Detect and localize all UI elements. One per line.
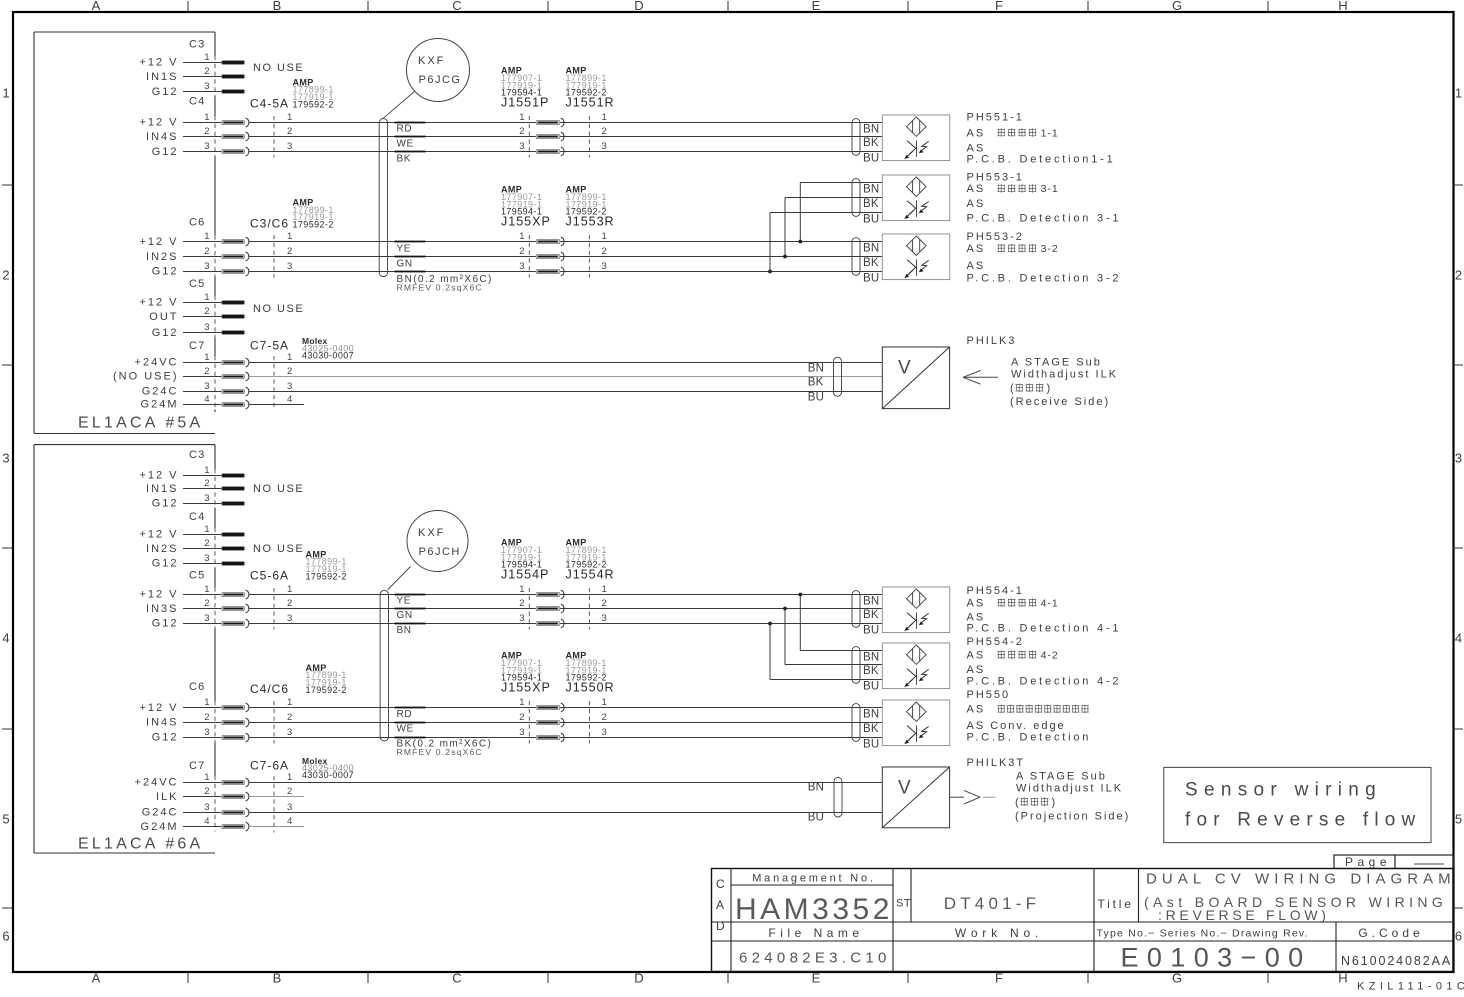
svg-text:A: A bbox=[92, 0, 101, 13]
svg-text:5: 5 bbox=[2, 812, 9, 827]
svg-text:BK: BK bbox=[863, 609, 879, 621]
connector pair label C4/C6 with AMP part numbers bbox=[250, 663, 347, 696]
svg-text:3: 3 bbox=[519, 261, 524, 272]
svg-text:1: 1 bbox=[204, 524, 209, 535]
svg-text:G.Code: G.Code bbox=[1358, 926, 1423, 940]
svg-text:3: 3 bbox=[602, 727, 607, 738]
svg-text:(NO USE): (NO USE) bbox=[113, 371, 179, 383]
svg-text:3: 3 bbox=[287, 727, 292, 738]
svg-text:179592-2: 179592-2 bbox=[293, 220, 334, 230]
svg-text:D: D bbox=[634, 0, 643, 13]
svg-text:G: G bbox=[1172, 0, 1182, 13]
svg-text:1: 1 bbox=[287, 584, 292, 595]
svg-text:(: ( bbox=[1015, 797, 1019, 809]
svg-text:1: 1 bbox=[204, 292, 209, 303]
svg-text:PH550: PH550 bbox=[967, 689, 1011, 701]
svg-text:2: 2 bbox=[204, 598, 209, 609]
svg-text:J1551P: J1551P bbox=[501, 95, 549, 109]
svg-text:3: 3 bbox=[204, 553, 209, 564]
svg-text:NO USE: NO USE bbox=[253, 303, 304, 315]
svg-text:KXF: KXF bbox=[418, 55, 445, 67]
unit box EL1ACA #6A bbox=[34, 445, 215, 853]
svg-text:F: F bbox=[995, 971, 1003, 986]
svg-text:J1551R: J1551R bbox=[566, 95, 615, 109]
svg-text:AS: AS bbox=[967, 649, 986, 661]
svg-text:BU: BU bbox=[863, 680, 879, 692]
wire colour labels RD/WE/BK + cable size (bottom C6 cable) bbox=[395, 708, 493, 758]
svg-text:PH554-2: PH554-2 bbox=[967, 636, 1024, 648]
svg-text:3: 3 bbox=[602, 613, 607, 624]
svg-text:E0103−00: E0103−00 bbox=[1120, 943, 1311, 973]
svg-text:2: 2 bbox=[204, 786, 209, 797]
svg-text::REVERSE FLOW): :REVERSE FLOW) bbox=[1158, 907, 1330, 923]
svg-text:5: 5 bbox=[1455, 812, 1462, 827]
svg-text:P.C.B. Detection1-1: P.C.B. Detection1-1 bbox=[967, 153, 1116, 165]
svg-text:G12: G12 bbox=[152, 86, 179, 98]
svg-text:1: 1 bbox=[287, 112, 292, 123]
svg-text:1: 1 bbox=[287, 772, 292, 783]
svg-text:Widthadjust ILK: Widthadjust ILK bbox=[1011, 369, 1118, 381]
svg-text:KXF: KXF bbox=[418, 527, 445, 539]
svg-text:3: 3 bbox=[287, 261, 292, 272]
svg-text:PH551-1: PH551-1 bbox=[967, 111, 1024, 123]
svg-text:3-2: 3-2 bbox=[1041, 243, 1059, 255]
svg-text:Type No.− Series No.− Drawing: Type No.− Series No.− Drawing Rev. bbox=[1097, 928, 1309, 940]
svg-text:P.C.B. Detection 3-2: P.C.B. Detection 3-2 bbox=[967, 273, 1122, 285]
svg-text:2: 2 bbox=[519, 126, 524, 137]
svg-text:1: 1 bbox=[204, 231, 209, 242]
svg-text:3: 3 bbox=[287, 141, 292, 152]
svg-text:2: 2 bbox=[287, 598, 292, 609]
svg-text:PHILK3T: PHILK3T bbox=[967, 757, 1026, 769]
svg-text:A STAGE Sub: A STAGE Sub bbox=[1016, 771, 1107, 783]
svg-text:6: 6 bbox=[1455, 929, 1462, 944]
svg-text:G24C: G24C bbox=[142, 386, 179, 398]
connector C5 (#6A) bbox=[139, 570, 292, 630]
svg-text:1: 1 bbox=[2, 86, 9, 101]
svg-text:2: 2 bbox=[204, 246, 209, 257]
svg-text:3: 3 bbox=[519, 727, 524, 738]
connector C6 (#5A) bbox=[139, 217, 292, 278]
svg-text:HAM3352: HAM3352 bbox=[735, 893, 893, 926]
svg-text:RD: RD bbox=[397, 124, 413, 135]
svg-text:C5: C5 bbox=[189, 278, 205, 290]
svg-text:624082E3.C10: 624082E3.C10 bbox=[739, 950, 891, 967]
svg-text:BN: BN bbox=[863, 708, 879, 720]
svg-text:+12 V: +12 V bbox=[139, 297, 178, 309]
svg-text:1: 1 bbox=[204, 697, 209, 708]
sensor PH554-2 labels bbox=[967, 636, 1122, 688]
svg-text:Management No.: Management No. bbox=[752, 873, 876, 885]
svg-text:4: 4 bbox=[1455, 631, 1462, 646]
svg-text:G12: G12 bbox=[152, 266, 179, 278]
svg-text:(Receive Side): (Receive Side) bbox=[1010, 396, 1110, 408]
connector C5 (#5A) NO USE bbox=[139, 278, 304, 339]
svg-text:2: 2 bbox=[287, 366, 292, 377]
sensor PH553-1 labels bbox=[967, 171, 1122, 224]
svg-text:2: 2 bbox=[204, 366, 209, 377]
connector pair label C3/C6 with AMP part numbers bbox=[250, 197, 334, 230]
svg-text:P6JCH: P6JCH bbox=[419, 546, 461, 558]
svg-text:G24M: G24M bbox=[141, 821, 179, 833]
svg-text:C6: C6 bbox=[189, 217, 205, 229]
cable bundle oval (top, KXF P6JCG) bbox=[379, 119, 387, 277]
svg-text:2: 2 bbox=[602, 126, 607, 137]
svg-text:Sensor wiring: Sensor wiring bbox=[1185, 780, 1382, 801]
svg-text:P.C.B. Detection 4-1: P.C.B. Detection 4-1 bbox=[967, 623, 1122, 635]
svg-text:AS: AS bbox=[967, 664, 986, 676]
svg-text:G24C: G24C bbox=[142, 807, 179, 819]
wires C5-6A pins 1-3 to sensor PH554-1 bbox=[249, 595, 883, 624]
note box: Sensor wiring for Reverse flow bbox=[1164, 767, 1431, 842]
branch wires to sensor PH554-2 with junctions bbox=[768, 593, 882, 680]
svg-text:ILK: ILK bbox=[156, 791, 179, 803]
wires C6 pins 1-3 to sensor PH553-2 bbox=[249, 242, 883, 272]
svg-text:BN: BN bbox=[863, 595, 879, 607]
svg-text:2: 2 bbox=[287, 126, 292, 137]
svg-text:2: 2 bbox=[602, 712, 607, 723]
cable bundle oval (bottom, KXF P6JCH) bbox=[380, 590, 388, 741]
PHILK3 labels bbox=[967, 335, 1119, 408]
svg-text:RMFEV 0.2sqX6C: RMFEV 0.2sqX6C bbox=[397, 747, 483, 757]
sheet code KZIL111-01C bbox=[1357, 981, 1464, 993]
svg-text:GN: GN bbox=[397, 258, 413, 269]
svg-text:J155XP: J155XP bbox=[501, 680, 551, 694]
svg-text:BN: BN bbox=[863, 242, 879, 254]
svg-text:AS: AS bbox=[967, 597, 986, 609]
svg-text:C: C bbox=[716, 877, 725, 891]
wires C4/C6 pins 1-3 to sensor PH550 bbox=[249, 708, 883, 738]
sensor PH554-2 bbox=[852, 643, 950, 692]
svg-text:WE: WE bbox=[397, 138, 414, 149]
svg-text:IN3S: IN3S bbox=[146, 603, 178, 615]
svg-text:RMFEV 0.2sqX6C: RMFEV 0.2sqX6C bbox=[397, 283, 483, 293]
svg-text:3: 3 bbox=[204, 322, 209, 333]
svg-text:4: 4 bbox=[287, 394, 292, 405]
wire colour labels RD/WE/BK (top C4 cable) bbox=[395, 123, 426, 165]
svg-text:DUAL CV WIRING DIAGRAM: DUAL CV WIRING DIAGRAM bbox=[1146, 871, 1456, 888]
svg-text:A STAGE Sub: A STAGE Sub bbox=[1011, 357, 1102, 369]
svg-text:PHILK3: PHILK3 bbox=[967, 335, 1017, 347]
svg-text:1: 1 bbox=[1455, 86, 1462, 101]
svg-text:G12: G12 bbox=[152, 327, 179, 339]
svg-text:C7-5A: C7-5A bbox=[250, 339, 289, 353]
svg-text:IN1S: IN1S bbox=[146, 71, 178, 83]
svg-text:G12: G12 bbox=[152, 558, 179, 570]
svg-text:BN: BN bbox=[863, 123, 879, 135]
callout circle KXF P6JCH bbox=[388, 511, 469, 591]
svg-text:BU: BU bbox=[863, 624, 879, 636]
svg-text:P.C.B. Detection: P.C.B. Detection bbox=[967, 732, 1092, 744]
svg-text:C: C bbox=[452, 0, 461, 13]
sensor PH553-2 bbox=[852, 234, 950, 284]
svg-text:BK: BK bbox=[397, 154, 412, 165]
projection-direction arrow for PHILK3T bbox=[950, 790, 996, 804]
svg-text:3: 3 bbox=[1455, 451, 1462, 466]
connector pair label C5-6A with AMP part numbers bbox=[250, 549, 347, 582]
svg-text:NO USE: NO USE bbox=[253, 543, 304, 555]
svg-text:OUT: OUT bbox=[149, 311, 178, 323]
svg-text:AS: AS bbox=[967, 260, 986, 272]
svg-text:C4: C4 bbox=[189, 96, 205, 108]
svg-text:Work No.: Work No. bbox=[955, 926, 1043, 940]
svg-text:1: 1 bbox=[204, 112, 209, 123]
svg-text:BU: BU bbox=[863, 152, 879, 164]
svg-text:for Reverse flow: for Reverse flow bbox=[1185, 810, 1421, 831]
svg-text:KZIL111-01C: KZIL111-01C bbox=[1357, 981, 1464, 993]
board connector pair J1551P / J1551R bbox=[501, 66, 615, 158]
svg-text:C7: C7 bbox=[189, 340, 205, 352]
amplifier module PHILK3 bbox=[808, 347, 950, 409]
connector C7 (#6A) bbox=[135, 760, 293, 833]
svg-text:Page: Page bbox=[1345, 855, 1391, 869]
svg-text:AS: AS bbox=[967, 611, 986, 623]
svg-text:1: 1 bbox=[602, 697, 607, 708]
wires C7-5A pins 1-3 to PHILK3, pin4 stub bbox=[249, 363, 883, 405]
svg-text:4: 4 bbox=[204, 816, 209, 827]
svg-text:BK: BK bbox=[808, 377, 824, 389]
svg-text:179592-2: 179592-2 bbox=[306, 571, 347, 581]
svg-text:3: 3 bbox=[2, 451, 9, 466]
svg-text:V: V bbox=[898, 778, 911, 799]
svg-text:): ) bbox=[1047, 383, 1051, 395]
sensor PH550 labels bbox=[967, 689, 1092, 744]
wires C7-6A pins 1,3 to PHILK3T, pins 2,4 stubs bbox=[249, 783, 883, 827]
board connector pair J1554P / J1554R bbox=[501, 538, 615, 630]
svg-text:3: 3 bbox=[204, 141, 209, 152]
svg-text:179592-2: 179592-2 bbox=[306, 685, 347, 695]
svg-text:E: E bbox=[812, 0, 821, 13]
sensor PH554-1 bbox=[852, 587, 950, 636]
svg-text:BK: BK bbox=[863, 723, 879, 735]
connector C3 (#5A) NO USE bbox=[139, 39, 304, 98]
svg-text:D: D bbox=[634, 971, 643, 986]
svg-text:2: 2 bbox=[204, 126, 209, 137]
svg-text:1: 1 bbox=[204, 772, 209, 783]
svg-text:J1550R: J1550R bbox=[566, 680, 615, 694]
svg-text:(: ( bbox=[1010, 383, 1014, 395]
svg-text:1: 1 bbox=[602, 112, 607, 123]
svg-text:E: E bbox=[812, 971, 821, 986]
svg-text:BN: BN bbox=[863, 651, 879, 663]
svg-text:H: H bbox=[1338, 0, 1347, 13]
title block bbox=[712, 869, 1454, 972]
svg-text:2: 2 bbox=[287, 246, 292, 257]
connector pair label C7-6A with Molex part numbers bbox=[250, 756, 354, 780]
sensor PH553-2 labels bbox=[967, 231, 1122, 285]
svg-text:1: 1 bbox=[287, 352, 292, 363]
svg-text:+12 V: +12 V bbox=[139, 589, 178, 601]
board connector pair J155XP / J1550R bbox=[501, 651, 615, 744]
svg-text:+12 V: +12 V bbox=[139, 702, 178, 714]
svg-text:1: 1 bbox=[204, 52, 209, 63]
connector C7 (#5A) bbox=[113, 340, 292, 411]
svg-text:3: 3 bbox=[602, 141, 607, 152]
svg-text:1-1: 1-1 bbox=[1041, 127, 1059, 139]
svg-text:1: 1 bbox=[519, 697, 524, 708]
svg-text:2: 2 bbox=[204, 712, 209, 723]
svg-text:3: 3 bbox=[204, 261, 209, 272]
svg-text:PH554-1: PH554-1 bbox=[967, 585, 1024, 597]
svg-text:C7-6A: C7-6A bbox=[250, 758, 289, 772]
branch wires to sensor PH553-1 with junctions bbox=[768, 183, 882, 274]
svg-text:C4: C4 bbox=[189, 511, 205, 523]
svg-text:G: G bbox=[1172, 971, 1182, 986]
svg-text:C3/C6: C3/C6 bbox=[250, 217, 289, 231]
svg-text:G24M: G24M bbox=[141, 399, 179, 411]
svg-text:4: 4 bbox=[287, 816, 292, 827]
svg-text:G12: G12 bbox=[152, 618, 179, 630]
svg-text:P.C.B. Detection 3-1: P.C.B. Detection 3-1 bbox=[967, 213, 1122, 225]
svg-text:3: 3 bbox=[204, 802, 209, 813]
svg-text:C6: C6 bbox=[189, 681, 205, 693]
svg-text:BN: BN bbox=[397, 625, 412, 636]
svg-text:A: A bbox=[716, 898, 724, 912]
svg-text:+12 V: +12 V bbox=[139, 57, 178, 69]
svg-text:A: A bbox=[92, 971, 101, 986]
svg-text:V: V bbox=[898, 358, 911, 379]
svg-text:AS: AS bbox=[967, 183, 986, 195]
wires C4 pins 1-3 to sensor PH551-1 bbox=[249, 123, 883, 152]
title block texts bbox=[716, 871, 1456, 973]
svg-text:BU: BU bbox=[808, 391, 824, 403]
wire colour labels YE/GN/BN + cable size (top C6 cable) bbox=[395, 242, 493, 293]
svg-text:J1553R: J1553R bbox=[566, 214, 615, 228]
svg-text:1: 1 bbox=[519, 231, 524, 242]
svg-text:2: 2 bbox=[204, 306, 209, 317]
connector C6 (#6A) bbox=[139, 681, 292, 744]
svg-text:File Name: File Name bbox=[768, 926, 863, 940]
svg-text:IN4S: IN4S bbox=[146, 131, 178, 143]
svg-text:1: 1 bbox=[519, 584, 524, 595]
svg-text:BK: BK bbox=[863, 137, 879, 149]
connector C3 (#6A) NO USE bbox=[139, 449, 304, 510]
svg-text:3: 3 bbox=[287, 613, 292, 624]
svg-text:AS: AS bbox=[967, 127, 986, 139]
svg-text:3: 3 bbox=[204, 81, 209, 92]
svg-text:4: 4 bbox=[204, 394, 209, 405]
svg-text:YE: YE bbox=[397, 243, 412, 254]
svg-text:BK: BK bbox=[863, 257, 879, 269]
svg-text:2: 2 bbox=[204, 478, 209, 489]
svg-text:J1554R: J1554R bbox=[566, 567, 615, 581]
svg-text:EL1ACA #6A: EL1ACA #6A bbox=[78, 836, 203, 853]
svg-text:RD: RD bbox=[397, 709, 413, 720]
svg-text:P6JCG: P6JCG bbox=[419, 74, 462, 86]
board connector pair J155XP / J1553R bbox=[501, 185, 615, 278]
svg-text:2: 2 bbox=[602, 246, 607, 257]
svg-text:AS: AS bbox=[967, 704, 986, 716]
svg-text:BN: BN bbox=[808, 362, 824, 374]
unit box EL1ACA #5A bbox=[34, 32, 215, 434]
svg-text:3: 3 bbox=[287, 381, 292, 392]
connector pair label C7-5A with Molex part numbers bbox=[250, 336, 354, 360]
svg-text:C3: C3 bbox=[189, 39, 205, 51]
svg-text:43030-0007: 43030-0007 bbox=[302, 770, 354, 780]
svg-text:+12 V: +12 V bbox=[139, 117, 178, 129]
svg-text:1: 1 bbox=[287, 231, 292, 242]
svg-text:ST: ST bbox=[896, 898, 911, 910]
svg-text:F: F bbox=[995, 0, 1003, 13]
svg-text:Widthadjust ILK: Widthadjust ILK bbox=[1016, 783, 1123, 795]
svg-text:BU: BU bbox=[808, 811, 824, 823]
svg-text:+12 V: +12 V bbox=[139, 470, 178, 482]
svg-text:NO USE: NO USE bbox=[253, 483, 304, 495]
svg-text:2: 2 bbox=[519, 246, 524, 257]
sensor PH554-1 labels bbox=[967, 585, 1122, 635]
svg-text:PH553-2: PH553-2 bbox=[967, 231, 1024, 243]
svg-text:2: 2 bbox=[287, 712, 292, 723]
svg-text:C5: C5 bbox=[189, 570, 205, 582]
svg-text:GN: GN bbox=[397, 610, 413, 621]
svg-text:AS Conv. edge: AS Conv. edge bbox=[967, 720, 1066, 732]
svg-text:1: 1 bbox=[204, 352, 209, 363]
svg-text:3: 3 bbox=[204, 727, 209, 738]
svg-text:IN4S: IN4S bbox=[146, 717, 178, 729]
svg-text:C3: C3 bbox=[189, 449, 205, 461]
svg-text:C4-5A: C4-5A bbox=[250, 96, 289, 110]
svg-text:C4/C6: C4/C6 bbox=[250, 682, 289, 696]
svg-text:AS: AS bbox=[967, 198, 986, 210]
svg-text:1: 1 bbox=[519, 112, 524, 123]
svg-text:IN2S: IN2S bbox=[146, 251, 178, 263]
svg-text:P.C.B. Detection 4-2: P.C.B. Detection 4-2 bbox=[967, 676, 1122, 688]
svg-text:43030-0007: 43030-0007 bbox=[302, 350, 354, 360]
svg-text:EL1ACA #5A: EL1ACA #5A bbox=[78, 415, 203, 432]
svg-text:BU: BU bbox=[863, 213, 879, 225]
page number box bbox=[1334, 855, 1454, 869]
svg-text:+12 V: +12 V bbox=[139, 529, 178, 541]
svg-text:2: 2 bbox=[287, 786, 292, 797]
svg-text:3: 3 bbox=[204, 381, 209, 392]
svg-text:BU: BU bbox=[863, 272, 879, 284]
svg-text:AS: AS bbox=[967, 243, 986, 255]
svg-text:G12: G12 bbox=[152, 732, 179, 744]
svg-text:+24VC: +24VC bbox=[135, 357, 179, 369]
svg-text:J155XP: J155XP bbox=[501, 214, 551, 228]
svg-text:): ) bbox=[1052, 797, 1056, 809]
svg-text:2: 2 bbox=[1455, 268, 1462, 283]
svg-text:2: 2 bbox=[519, 598, 524, 609]
svg-text:4: 4 bbox=[2, 631, 9, 646]
svg-text:3-1: 3-1 bbox=[1041, 183, 1059, 195]
svg-text:H: H bbox=[1338, 971, 1347, 986]
connector C4 (#6A) NO USE bbox=[139, 511, 304, 570]
amplifier module PHILK3T bbox=[808, 767, 950, 828]
receive-direction arrow for PHILK3 bbox=[963, 371, 998, 385]
svg-text:2: 2 bbox=[519, 712, 524, 723]
svg-text:3: 3 bbox=[204, 613, 209, 624]
svg-text:BN: BN bbox=[863, 183, 879, 195]
connector C4 (#5A) bbox=[139, 96, 292, 159]
svg-text:Title: Title bbox=[1098, 897, 1134, 911]
svg-text:C: C bbox=[452, 971, 461, 986]
svg-text:WE: WE bbox=[397, 724, 414, 735]
svg-text:3: 3 bbox=[287, 802, 292, 813]
svg-text:NO USE: NO USE bbox=[253, 62, 304, 74]
svg-text:179592-2: 179592-2 bbox=[293, 99, 334, 109]
svg-text:6: 6 bbox=[2, 929, 9, 944]
PHILK3T labels bbox=[967, 757, 1131, 823]
svg-text:G12: G12 bbox=[152, 146, 179, 158]
svg-text:BN: BN bbox=[808, 782, 824, 794]
svg-text:+12 V: +12 V bbox=[139, 236, 178, 248]
sensor PH551-1 labels bbox=[967, 111, 1116, 165]
sensor PH550 bbox=[852, 700, 950, 750]
svg-text:1: 1 bbox=[204, 584, 209, 595]
svg-text:1: 1 bbox=[204, 465, 209, 476]
svg-text:D: D bbox=[716, 919, 725, 933]
